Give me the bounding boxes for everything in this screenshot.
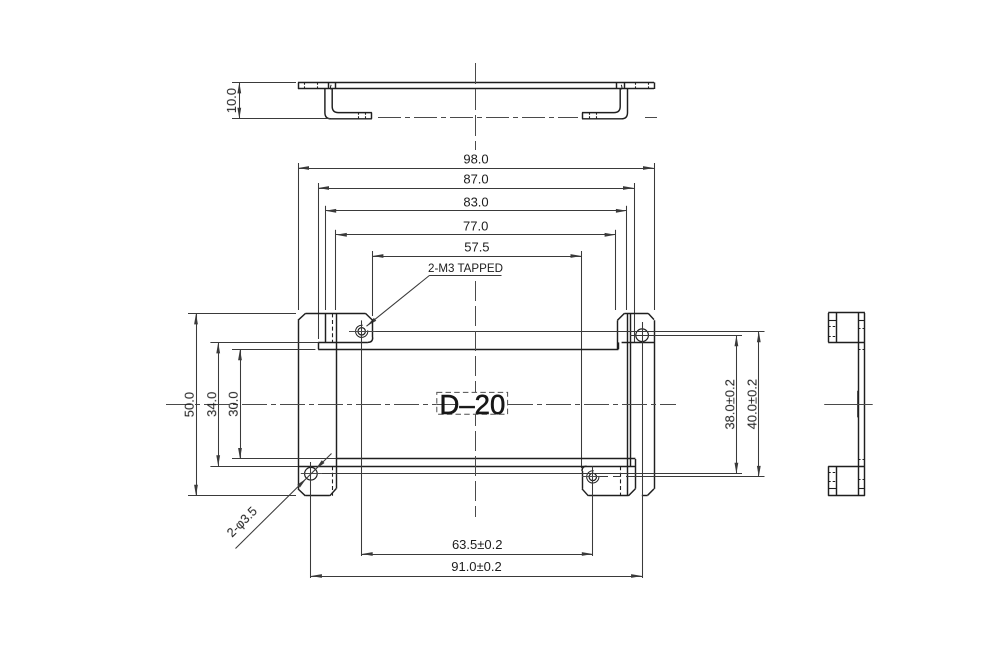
svg-text:30.0: 30.0 [226,391,241,416]
svg-text:10.0: 10.0 [224,88,239,113]
svg-text:40.0±0.2: 40.0±0.2 [745,379,760,430]
svg-text:87.0: 87.0 [463,172,488,187]
svg-text:63.5±0.2: 63.5±0.2 [452,537,503,552]
svg-text:2-M3 TAPPED: 2-M3 TAPPED [428,262,503,275]
svg-text:50.0: 50.0 [182,392,197,417]
svg-text:98.0: 98.0 [463,152,488,167]
svg-text:91.0±0.2: 91.0±0.2 [451,559,502,574]
svg-text:34.0: 34.0 [204,392,219,417]
svg-text:38.0±0.2: 38.0±0.2 [722,379,737,430]
svg-text:57.5: 57.5 [464,240,489,255]
svg-text:83.0: 83.0 [463,194,488,209]
svg-text:77.0: 77.0 [463,218,488,233]
svg-text:D–20: D–20 [440,389,506,420]
